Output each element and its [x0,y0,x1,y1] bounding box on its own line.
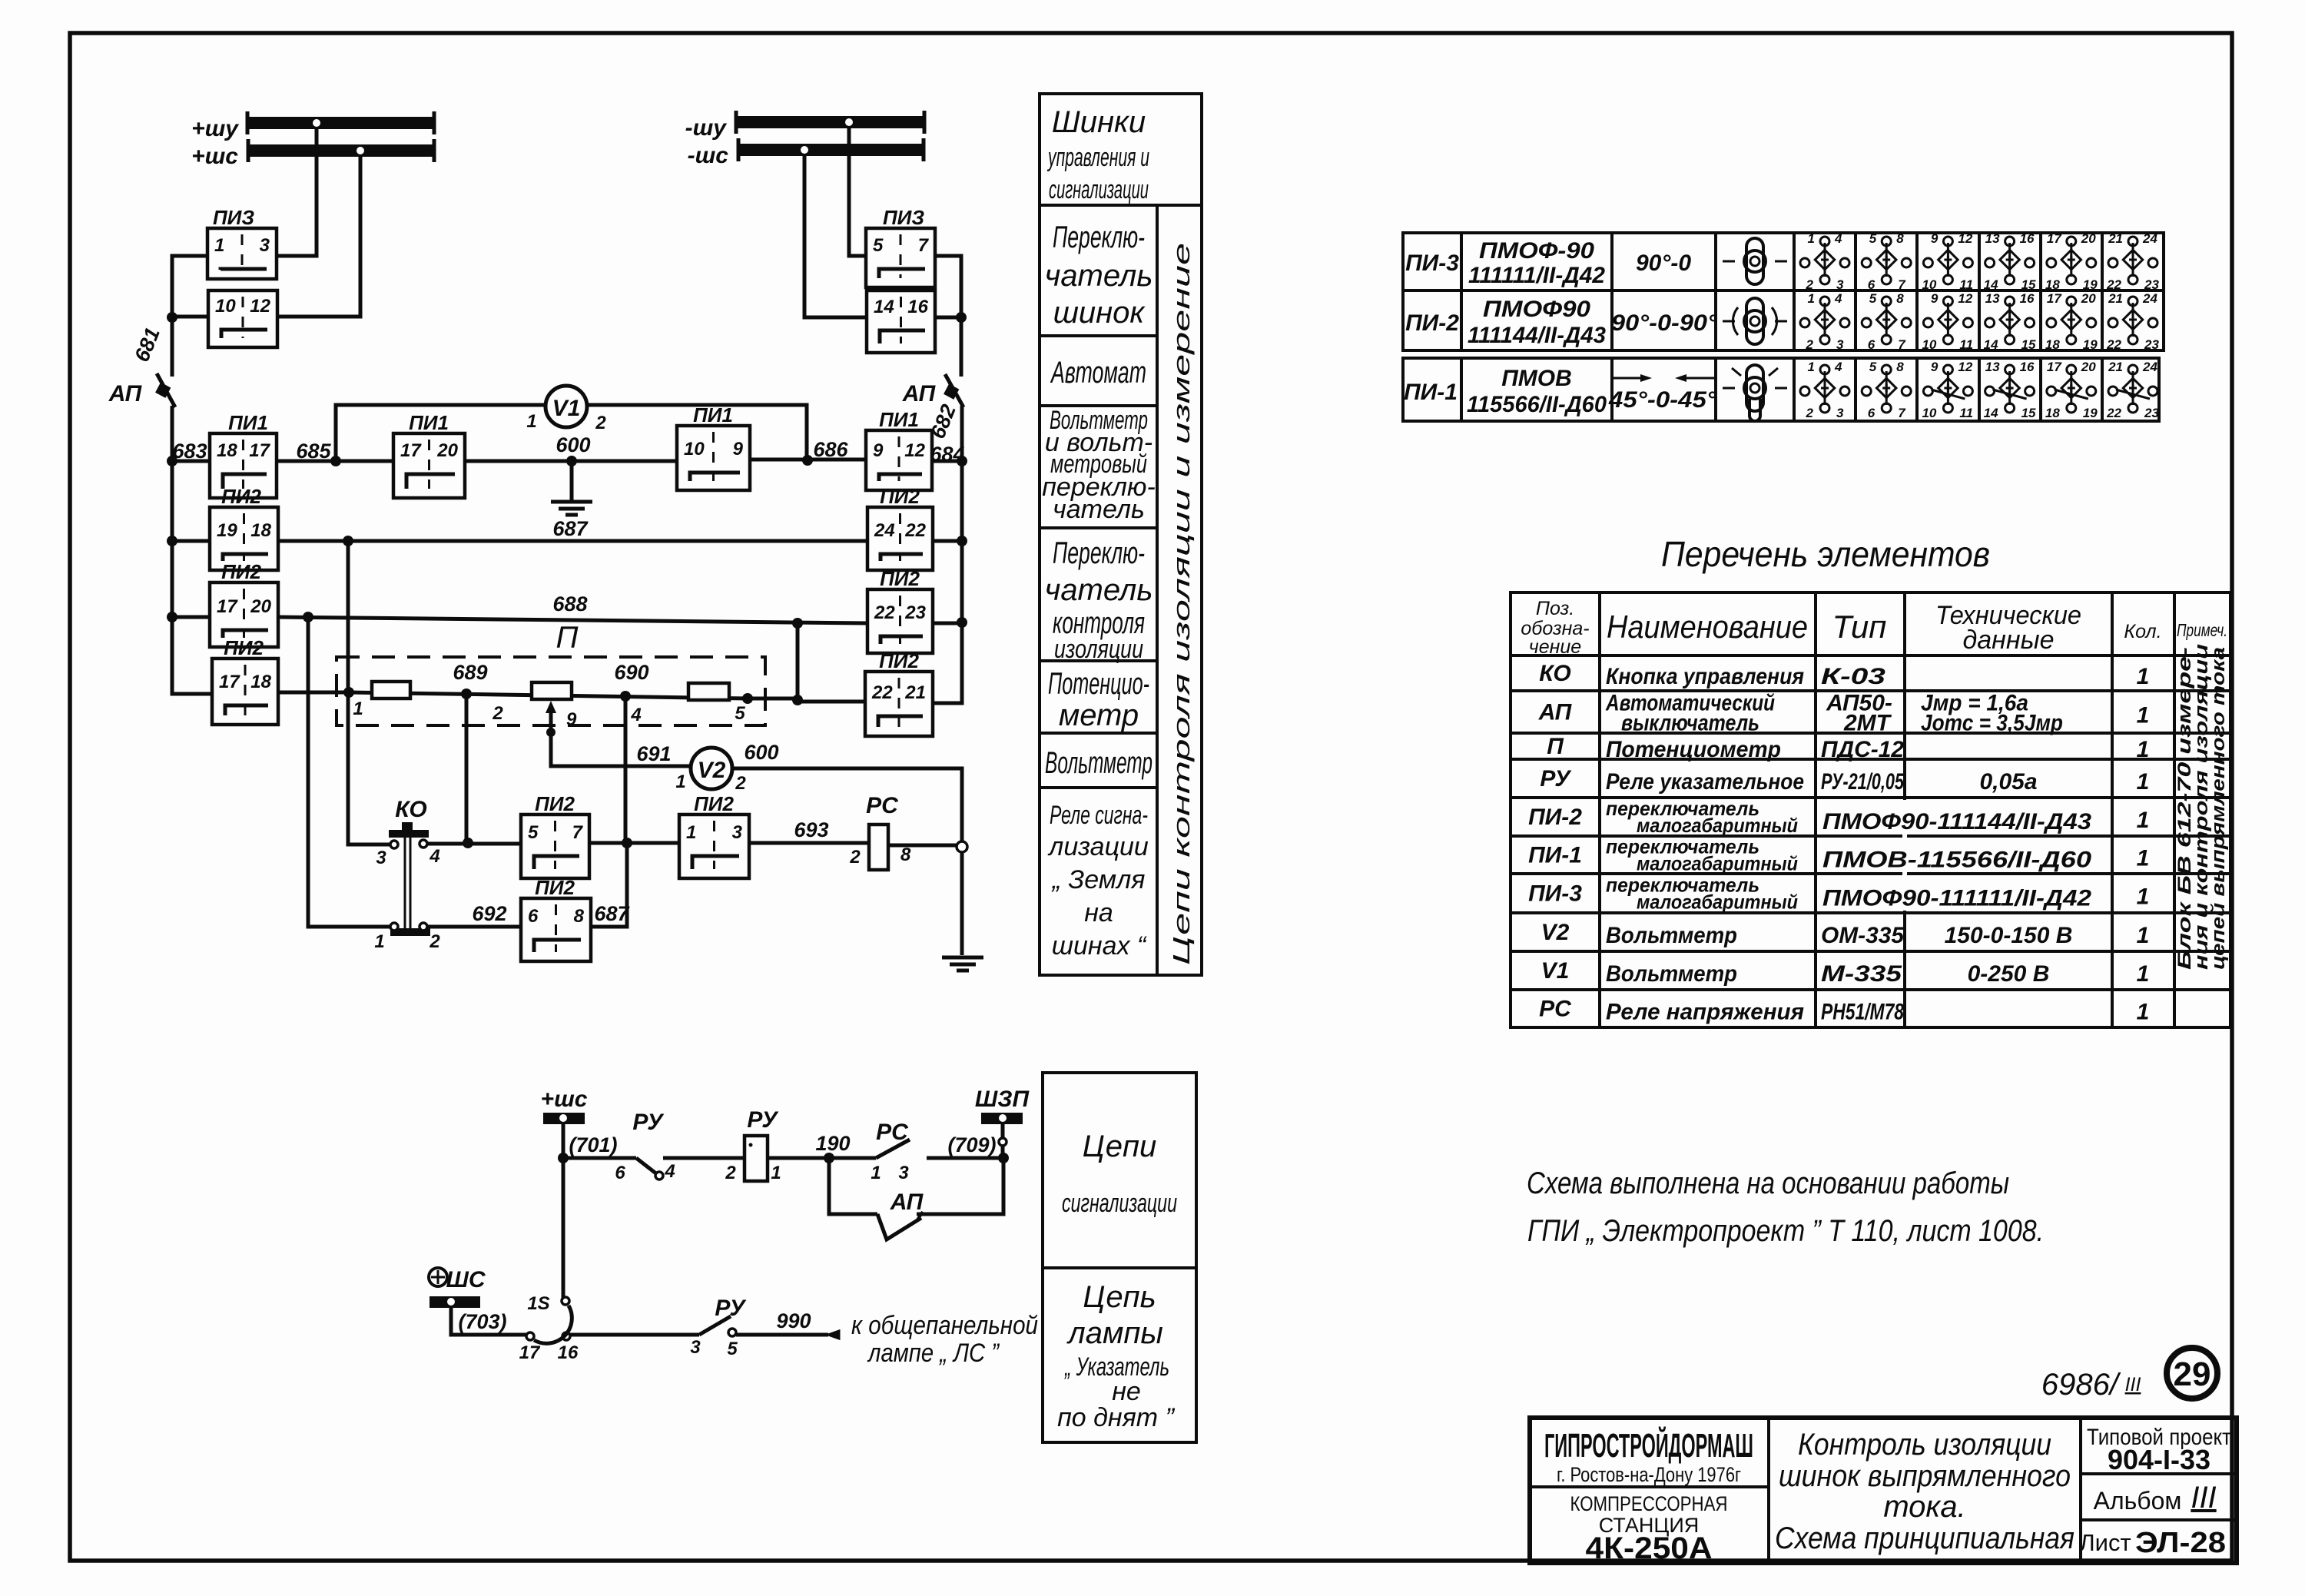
svg-text:1: 1 [2137,846,2150,871]
svg-text:21: 21 [2108,360,2123,374]
wire 684 to right bus [932,460,962,463]
svg-text:23: 23 [2144,406,2159,420]
svg-text:2: 2 [735,773,746,794]
svg-text:17: 17 [400,440,422,461]
svg-text:6986/: 6986/ [2041,1368,2121,1402]
wire 688 long [278,617,867,623]
wire 693 to РС [749,841,869,845]
svg-text:шинок выпрямленного: шинок выпрямленного [1779,1459,2071,1493]
svg-text:РУ: РУ [747,1107,779,1133]
svg-text:691: 691 [636,742,671,765]
svg-text:18: 18 [2045,277,2060,292]
element list table [1511,592,2230,1027]
svg-text:14: 14 [1984,337,1998,352]
switch ПИ2-L2 contacts 17-20 [210,582,278,647]
svg-text:9: 9 [1931,291,1939,306]
wire 691 from wiper [551,732,691,766]
svg-text:ПИ1: ПИ1 [879,408,919,431]
svg-text:115566/II-Д60: 115566/II-Д60 [1467,392,1607,417]
П internal line [349,692,748,698]
svg-text:V2: V2 [698,758,726,783]
bypass АП loop [829,1158,877,1214]
resistor R3 [688,683,729,700]
svg-text:по днят ”: по днят ” [1057,1403,1175,1432]
svg-text:ПИ-2: ПИ-2 [1405,310,1459,336]
svg-text:Схема принципиальная: Схема принципиальная [1775,1521,2074,1555]
svg-text:17: 17 [249,440,270,461]
svg-text:20: 20 [2081,291,2096,306]
switch ПИ2-R3 contacts 22-21 [865,672,933,736]
svg-text:3: 3 [898,1163,909,1183]
node 681 junction [167,312,177,323]
svg-text:ПМОВ-115566/II-Д60: ПМОВ-115566/II-Д60 [1822,848,2091,873]
svg-text:16: 16 [2020,291,2035,306]
wire pin2 down [465,694,469,843]
wire 600 mid [465,460,677,463]
left bus vertical [172,461,212,694]
svg-text:5: 5 [727,1339,738,1359]
wire ПИ2 to right bus [933,539,962,543]
svg-text:19: 19 [2083,277,2098,292]
contact group 21-24 [2106,231,2159,292]
svg-text:16: 16 [2020,231,2035,246]
wire 990 with arrow [736,1333,828,1337]
svg-text:ПИ2: ПИ2 [221,560,261,583]
svg-text:24: 24 [874,520,895,541]
svg-text:ПИ2: ПИ2 [224,636,264,659]
svg-text:8: 8 [1896,291,1904,306]
svg-text:2: 2 [1806,406,1814,420]
svg-text:ПИ2: ПИ2 [535,876,575,899]
svg-text:-шу: -шу [685,115,728,141]
svg-text:Цепи контроля изоляции и: Цепи контроля изоляции и измерение [1168,243,1195,965]
svg-text:3: 3 [260,235,270,256]
svg-text:АП: АП [1538,700,1573,725]
ground at 600 [570,461,574,500]
svg-text:4: 4 [1834,231,1842,246]
wire pin8 up to 687 node [591,843,627,927]
wire ПИ3 pin10 to left bus [172,315,208,319]
svg-text:692: 692 [472,902,506,925]
svg-text:ПМОФ90: ПМОФ90 [1483,297,1590,322]
svg-text:ПИ-3: ПИ-3 [1405,251,1459,276]
sheet number circle 29 [2167,1348,2217,1399]
svg-text:ПИ2: ПИ2 [535,792,575,815]
switch ПИ1-m contacts 17-20 [393,433,465,498]
svg-text:на: на [1084,898,1113,927]
function column table [1040,94,1202,975]
svg-text:РУ-21/0,05: РУ-21/0,05 [1821,769,1905,795]
svg-text:17: 17 [2047,231,2062,246]
svg-text:ПИ1: ПИ1 [228,411,268,434]
svg-text:РС: РС [866,793,899,818]
svg-text:4К-250А: 4К-250А [1586,1531,1713,1565]
contact group 17-20 [2045,291,2098,352]
wire ПИ2 pin18 to П pin1 [278,691,349,695]
svg-text:10: 10 [1922,406,1936,420]
svg-text:18: 18 [250,672,271,692]
svg-text:19: 19 [2083,406,2098,420]
svg-text:990: 990 [776,1309,811,1332]
svg-text:24: 24 [2142,231,2157,246]
contact group 13-16 [1984,231,2036,292]
svg-text:20: 20 [250,596,271,617]
svg-text:Потенциометр: Потенциометр [1606,737,1781,762]
svg-text:ПИ2: ПИ2 [880,567,920,590]
switch ПИ2-k2 contacts 1-3 [679,815,749,878]
resistor R1 [372,682,410,698]
svg-text:сигнализации: сигнализации [1062,1189,1177,1218]
svg-text:688: 688 [552,592,587,616]
svg-text:190: 190 [815,1132,850,1155]
branch up to V1 [336,405,546,461]
svg-text:2: 2 [429,931,440,952]
svg-text:V2: V2 [1541,920,1570,945]
bus +ШС [191,139,434,169]
svg-text:17: 17 [519,1342,541,1363]
wire pin4 down (crosses 691) [624,696,628,843]
svg-text:11: 11 [1959,337,1973,352]
svg-text:1: 1 [2137,884,2150,910]
svg-text:сигнализации: сигнализации [1049,175,1149,204]
svg-text:1: 1 [2137,737,2150,762]
svg-text:г. Ростов-на-Дону 1976г: г. Ростов-на-Дону 1976г [1557,1463,1741,1486]
svg-text:90°-0: 90°-0 [1636,251,1691,276]
svg-text:РС: РС [1539,997,1572,1022]
svg-text:21: 21 [2108,291,2123,306]
svg-text:1: 1 [374,931,384,952]
svg-text:687: 687 [552,517,589,540]
svg-text:686: 686 [813,438,848,461]
wire 687 long [278,539,867,543]
switch ПИ2-L3 contacts 17-18 [212,659,278,725]
svg-text:Тип: Тип [1832,609,1887,645]
wire КО2 692 [427,925,521,929]
svg-text:изоляции: изоляции [1054,635,1143,664]
svg-text:2МТ: 2МТ [1843,711,1892,736]
svg-text:689: 689 [453,661,487,684]
bus +ШУ [191,111,434,141]
contact group 21-24 [2106,360,2159,420]
svg-text:малогабаритный: малогабаритный [1637,814,1798,837]
svg-text:Jотс = 3,5Jмр: Jотс = 3,5Jмр [1921,711,2063,736]
svg-text:Потенцио-: Потенцио- [1048,667,1149,701]
node open circle [957,841,967,852]
wire left bus to ПИ2 pin17 [172,616,210,619]
switch ПИ2-R2 contacts 22-23 [867,589,933,653]
svg-text:11: 11 [1959,406,1973,420]
svg-text:1: 1 [2137,923,2150,948]
svg-text:ПИ-2: ПИ-2 [1528,805,1582,830]
svg-text:20: 20 [2081,360,2096,374]
svg-text:22: 22 [2106,337,2121,352]
svg-text:600: 600 [556,433,590,456]
svg-text:22: 22 [2106,406,2121,420]
svg-text:7: 7 [1898,277,1906,292]
svg-text:АП: АП [902,381,937,406]
wire to node 190 [768,1156,876,1160]
svg-text:14: 14 [1984,277,1998,292]
svg-text:18: 18 [2045,337,2060,352]
contact group 1-4 [1800,360,1849,420]
svg-text:6: 6 [1868,406,1876,420]
svg-text:Контроль изоляции: Контроль изоляции [1798,1428,2051,1462]
svg-text:4: 4 [664,1161,675,1182]
switch detail table A [1403,233,2164,421]
svg-text:ЭЛ-28: ЭЛ-28 [2135,1527,2226,1559]
svg-text:8: 8 [1896,231,1904,246]
svg-text:(703): (703) [458,1310,506,1333]
svg-text:12: 12 [904,440,925,461]
wire down from +ШС [562,1124,565,1299]
svg-text:45°-0-45°: 45°-0-45° [1608,387,1717,413]
contact group 9-12 [1922,291,1973,352]
svg-text:тока.: тока. [1883,1490,1965,1524]
svg-text:Цепь: Цепь [1083,1280,1156,1314]
svg-text:малогабаритный: малогабаритный [1637,852,1798,875]
ground [942,957,983,971]
svg-text:23: 23 [904,602,926,623]
svg-text:+шс: +шс [191,144,238,169]
wire -ШУ down to ПИ3 pin 5 [849,128,866,256]
svg-text:1: 1 [526,411,536,432]
contact group 13-16 [1984,360,2036,420]
wire to ПИ2 1-3 [589,841,679,845]
bus -ШУ [685,111,924,141]
svg-text:2: 2 [595,413,606,433]
svg-text:17: 17 [2047,360,2062,374]
svg-text:13: 13 [1985,231,2000,246]
svg-text:Поз.: Поз. [1536,598,1574,619]
contact group 1-4 [1800,231,1849,292]
title block [1530,1418,2237,1563]
voltmeter V2 [691,748,732,789]
svg-text:19: 19 [217,520,237,541]
svg-text:ПИ2: ПИ2 [879,649,919,672]
svg-text:21: 21 [2108,231,2123,246]
svg-text:21: 21 [904,682,926,703]
svg-text:+шу: +шу [191,116,239,141]
svg-text:Примеч.: Примеч. [2177,620,2227,640]
svg-text:-шс: -шс [688,143,729,168]
svg-text:Переклю-: Переклю- [1053,221,1145,254]
switch ПИ1-m2 contacts 10-9 [677,426,750,490]
svg-text:чатель: чатель [1053,495,1145,524]
svg-text:не: не [1112,1377,1141,1406]
svg-text:„ Земля: „ Земля [1051,865,1146,894]
svg-text:5: 5 [873,235,884,256]
svg-text:9: 9 [733,439,744,460]
svg-text:Кнопка управления: Кнопка управления [1606,664,1804,689]
svg-text:ПИЗ: ПИЗ [213,206,254,229]
wire +ШС to ПИ3 pin 12 [277,157,360,317]
svg-text:12: 12 [1958,360,1972,374]
svg-text:5: 5 [735,703,745,724]
svg-text:7: 7 [1898,406,1906,420]
svg-text:РУ: РУ [1540,766,1572,791]
svg-text:20: 20 [2081,231,2096,246]
wire -ШС down to ПИ3 pin 14 [804,156,867,317]
contact group 9-12 [1922,360,1973,420]
svg-text:(709): (709) [947,1133,996,1156]
svg-text:РН51/М78: РН51/М78 [1821,1000,1904,1025]
svg-text:+шс: +шс [541,1087,588,1112]
svg-text:22: 22 [871,682,893,703]
svg-text:15: 15 [2021,406,2036,420]
svg-text:управления и: управления и [1047,143,1149,172]
svg-text:ПИ2: ПИ2 [221,485,261,508]
svg-text:1: 1 [2137,664,2150,689]
toggle switch icon [1723,238,1787,284]
svg-text:8: 8 [900,844,911,865]
svg-text:22: 22 [2106,277,2121,292]
svg-text:0,05а: 0,05а [1979,769,2037,795]
svg-text:Лист: Лист [2079,1529,2131,1556]
svg-text:V1: V1 [1541,958,1570,984]
svg-text:1: 1 [686,822,696,843]
wiper arrow to pin 9 [549,708,553,766]
svg-text:ПМОФ90-111111/II-Д42: ПМОФ90-111111/II-Д42 [1822,886,2091,911]
svg-text:3: 3 [376,848,386,868]
svg-text:метр: метр [1059,698,1139,732]
svg-text:18: 18 [217,440,237,461]
wire +ШУ to ПИ3 pin 3 [277,129,317,256]
svg-text:1: 1 [1808,360,1815,374]
svg-text:12: 12 [1958,231,1972,246]
svg-text:Наименование: Наименование [1607,609,1808,645]
svg-text:Цепи: Цепи [1083,1130,1156,1163]
wire 688-junction down to КО 1 [308,617,390,927]
svg-text:8: 8 [1896,360,1904,374]
svg-text:лампе „ ЛС ”: лампе „ ЛС ” [867,1339,1000,1368]
switch ПИ2-L1 contacts 19-18 [210,507,278,570]
svg-text:3: 3 [1836,277,1844,292]
svg-text:П: П [556,621,579,655]
svg-text:14: 14 [874,297,894,317]
svg-text:3: 3 [690,1337,701,1358]
wire ПИ2 to right bus [933,622,962,625]
svg-text:1: 1 [871,1163,881,1183]
svg-text:5: 5 [1869,360,1877,374]
svg-text:6: 6 [1868,337,1876,352]
wire 688 right branch down to П pin5 line [798,623,865,702]
svg-text:10: 10 [215,296,236,317]
contact group 17-20 [2045,231,2098,292]
svg-text:Автомат: Автомат [1050,356,1146,390]
svg-text:600: 600 [744,741,778,764]
svg-text:выключатель: выключатель [1621,711,1759,736]
svg-text:1: 1 [771,1163,781,1183]
svg-text:17: 17 [217,596,238,617]
wire down to ground [960,852,964,955]
svg-text:чатель: чатель [1045,573,1153,607]
svg-text:КО: КО [1539,661,1570,686]
svg-text:11: 11 [1959,277,1973,292]
svg-text:ПИ-3: ПИ-3 [1528,881,1582,907]
svg-text:7: 7 [572,822,584,843]
switch ПИ3-c contacts 5-7 [866,228,935,287]
wire left bus to ПИ2 pin19 [172,539,210,543]
svg-text:П: П [1547,734,1564,759]
wire ПИ3 pin1 to left bus [172,256,207,318]
wire 685 [277,460,393,463]
svg-text:Шинки: Шинки [1052,105,1146,139]
svg-text:150-0-150 В: 150-0-150 В [1945,923,2073,948]
svg-text:9: 9 [1931,231,1939,246]
svg-text:16: 16 [2020,360,2035,374]
svg-text:13: 13 [1985,360,2000,374]
svg-text:КОМПРЕССОРНАЯ: КОМПРЕССОРНАЯ [1570,1492,1728,1515]
voltmeter V1 [546,386,587,427]
svg-text:лампы: лампы [1066,1316,1163,1350]
svg-text:4: 4 [429,846,439,867]
switch ПИ2-k1 contacts 5-7 [521,815,589,878]
svg-text:2: 2 [1806,277,1814,292]
svg-text:ПДС-12: ПДС-12 [1821,737,1904,762]
svg-text:Вольтметр: Вольтметр [1606,923,1737,948]
svg-text:1S: 1S [527,1293,549,1314]
svg-text:Реле напряжения: Реле напряжения [1606,1000,1804,1025]
bus -ШС [688,138,924,168]
svg-text:Реле сигна-: Реле сигна- [1050,801,1148,830]
svg-text:ПИ2: ПИ2 [880,485,920,508]
node 682 junction [956,312,967,323]
svg-text:17: 17 [2047,291,2062,306]
svg-text:1: 1 [353,698,363,719]
toggle switch icon [1723,365,1787,421]
svg-text:18: 18 [2045,406,2060,420]
svg-text:24: 24 [2142,291,2157,306]
svg-text:Перечень элементов: Перечень элементов [1661,534,1990,574]
svg-text:(701): (701) [569,1133,617,1156]
svg-text:4: 4 [1834,291,1842,306]
svg-text:16: 16 [907,297,928,317]
svg-text:Альбом: Альбом [2094,1487,2182,1515]
svg-text:ПИ1: ПИ1 [693,403,733,426]
svg-text:6: 6 [528,906,539,927]
svg-text:3: 3 [1836,337,1844,352]
right bus vertical [933,461,962,703]
contact group 5-8 [1862,360,1911,420]
wire 687-junction down to КО 3 [348,541,390,844]
svg-text:2: 2 [1806,337,1814,352]
svg-text:1: 1 [2137,961,2150,987]
resistor R2 (wiper) [532,682,572,699]
svg-text:5: 5 [1869,231,1877,246]
svg-text:17: 17 [219,672,240,692]
svg-text:Вольтметр: Вольтметр [1606,961,1737,987]
svg-text:7: 7 [1898,337,1906,352]
svg-text:10: 10 [1922,277,1936,292]
svg-text:23: 23 [2144,277,2159,292]
svg-text:ПИ1: ПИ1 [409,411,449,434]
svg-text:23: 23 [2144,337,2159,352]
switch ПИ1-R contacts 9-12 [866,430,932,490]
svg-text:12: 12 [1958,291,1972,306]
svg-text:3: 3 [1836,406,1844,420]
svg-text:шинок: шинок [1053,296,1146,330]
svg-text:ПМОФ90-111144/II-Д43: ПМОФ90-111144/II-Д43 [1822,809,2091,834]
svg-text:1: 1 [1808,291,1815,306]
svg-text:1: 1 [675,771,685,792]
svg-text:693: 693 [794,818,828,841]
svg-text:8: 8 [574,906,585,927]
svg-text:ПИ-1: ПИ-1 [1528,843,1582,868]
svg-text:2: 2 [849,847,861,868]
svg-text:ПИЗ: ПИЗ [883,206,924,229]
svg-text:ГИПРОСТРОЙДОРМАШ: ГИПРОСТРОЙДОРМАШ [1544,1425,1753,1465]
wire to РУ contact [563,1156,636,1160]
